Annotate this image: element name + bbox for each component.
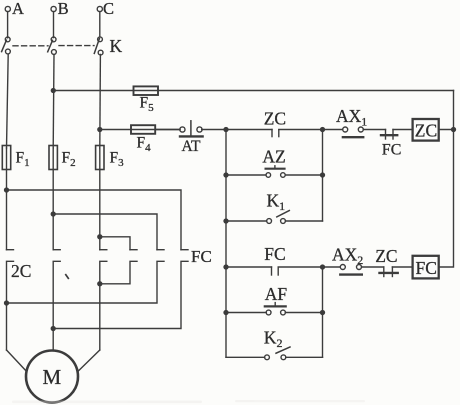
svg-text:FC: FC <box>264 244 285 264</box>
svg-text:A: A <box>12 0 24 18</box>
svg-text:FC: FC <box>416 258 437 278</box>
svg-text:ZC: ZC <box>415 121 437 141</box>
svg-text:C: C <box>103 0 114 18</box>
svg-text:AF: AF <box>265 284 288 304</box>
svg-text:ZC: ZC <box>264 108 286 128</box>
svg-text:ZC: ZC <box>375 246 397 266</box>
svg-text:AT: AT <box>182 138 201 155</box>
svg-text:AZ: AZ <box>262 146 285 166</box>
svg-text:B: B <box>58 0 69 18</box>
svg-text:2C: 2C <box>11 261 31 281</box>
svg-text:K: K <box>110 36 123 56</box>
svg-text:FC: FC <box>382 142 402 159</box>
svg-text:FC: FC <box>191 247 212 266</box>
svg-text:M: M <box>43 365 62 389</box>
